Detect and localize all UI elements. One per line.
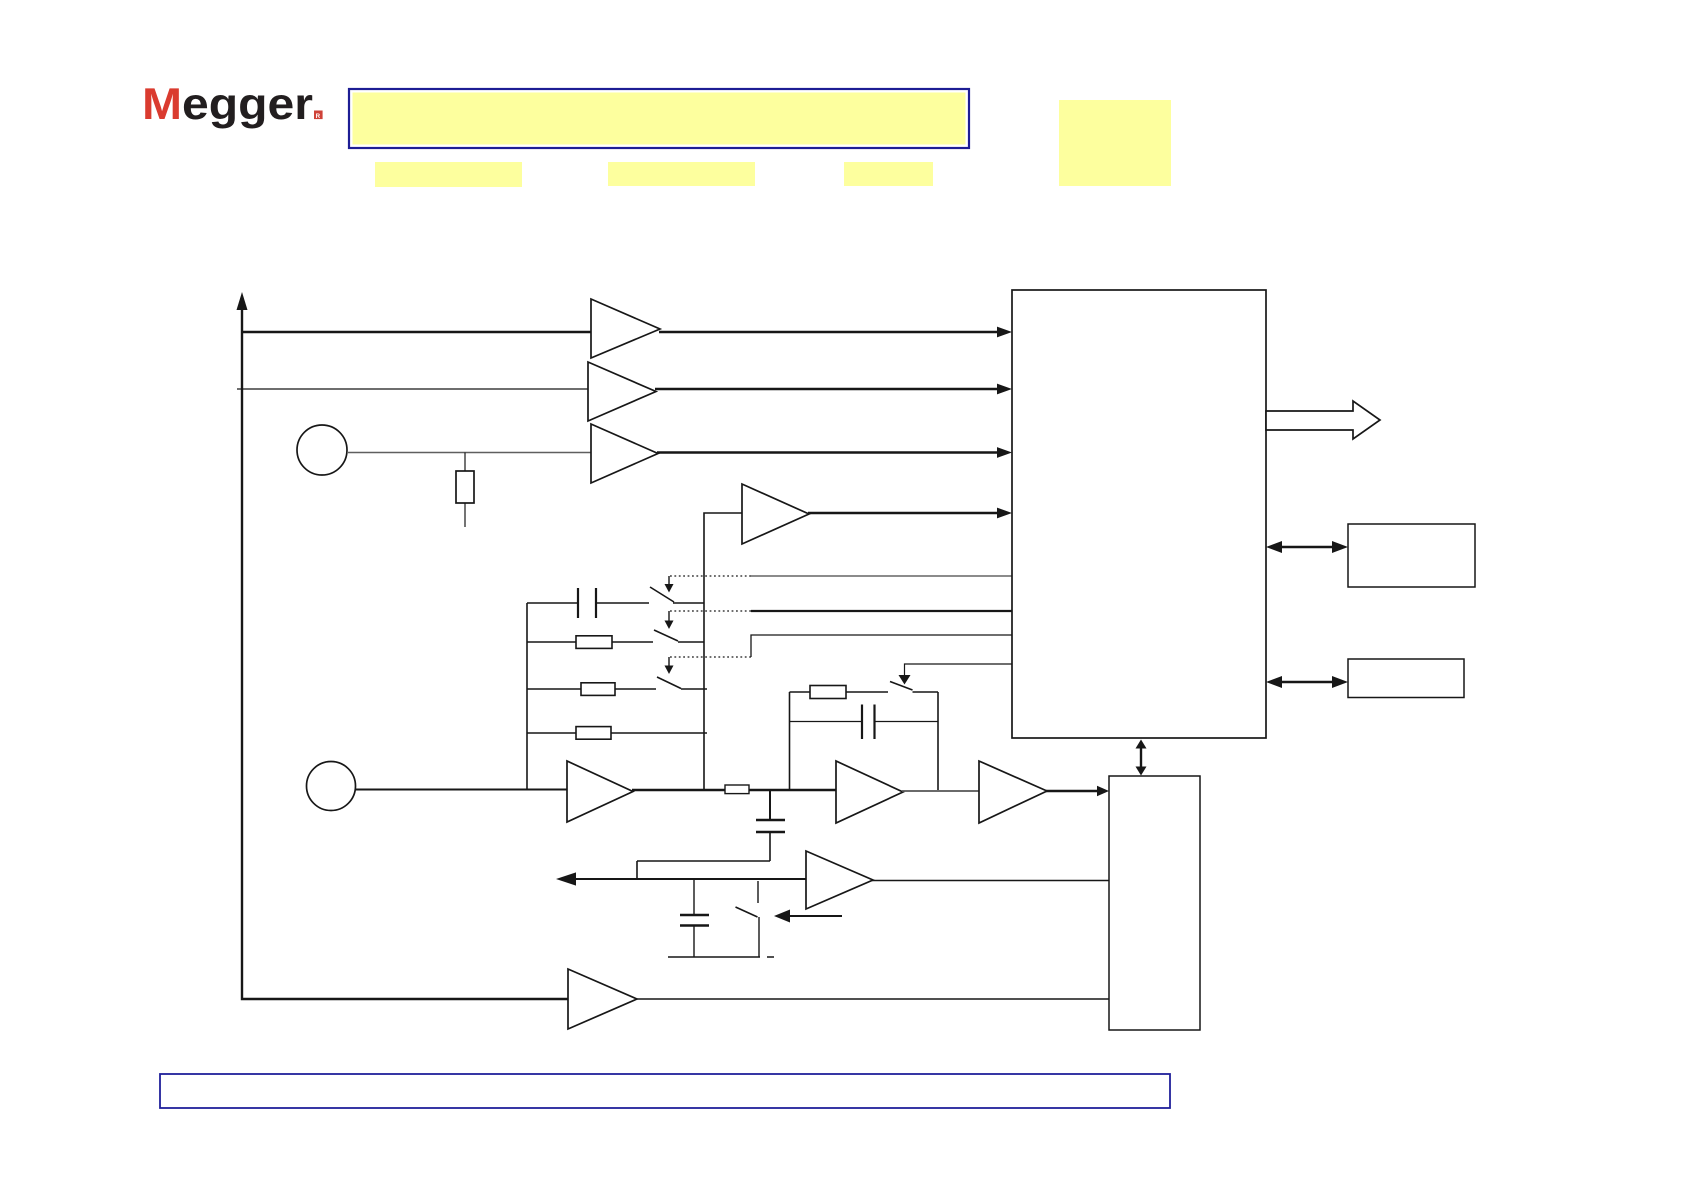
- stub wire above R1: [464, 453, 466, 472]
- svg-text:R: R: [316, 113, 321, 120]
- gain bus right: [704, 513, 742, 789]
- wire line 3: [347, 452, 591, 454]
- control wire S4: [905, 664, 1013, 676]
- op-amp U5: [567, 761, 633, 822]
- feedback top wire: [790, 691, 889, 693]
- svg-text:Megger: Megger: [142, 80, 313, 129]
- arrowhead into FPGA in2: [997, 384, 1012, 395]
- resistor R6: [810, 686, 846, 699]
- highlight chip 1: [375, 162, 522, 187]
- wire U9 to ADC: [636, 998, 1109, 1000]
- capacitor C1: [578, 588, 596, 618]
- C4 lower stem: [693, 926, 695, 958]
- gain bus left: [526, 603, 528, 790]
- switch S2 blade: [654, 630, 678, 641]
- op-amp U9: [568, 969, 637, 1029]
- wire U4 out: [808, 512, 998, 515]
- wire C2 to DAC node: [637, 832, 770, 879]
- row2 left wire: [527, 641, 576, 643]
- wire U3 out: [657, 451, 998, 454]
- yellow note box: [1059, 100, 1171, 186]
- dotted control S2: [669, 610, 751, 612]
- stub wire below R1: [464, 503, 466, 527]
- wire U6 to U7: [902, 790, 979, 792]
- switch S5 lower stem: [758, 917, 760, 957]
- row2 right wire: [612, 641, 704, 643]
- feedback top wire right: [913, 691, 939, 693]
- left bus wire: [242, 309, 568, 999]
- row1 left wire: [527, 602, 578, 604]
- row3 right wire: [615, 688, 707, 690]
- op-amp U8: [806, 851, 873, 909]
- capacitor C2 stem: [769, 790, 771, 820]
- row1 right wire: [596, 602, 704, 604]
- switch S5 blade: [736, 907, 758, 917]
- transducer CT1: [297, 425, 347, 475]
- resistor R3: [581, 683, 615, 696]
- left bus arrowhead: [237, 292, 248, 310]
- arrowhead into FPGA in4: [997, 508, 1012, 519]
- feedback left wire: [789, 692, 791, 790]
- wire line 1: [242, 331, 591, 334]
- feedback cap wire: [790, 721, 939, 723]
- buffer U3: [591, 424, 658, 483]
- wire U2 out: [655, 388, 998, 391]
- control arrow S3: [668, 657, 670, 666]
- wire CT2 to U5: [356, 788, 568, 790]
- FPGA-ADC bus arrows: [1140, 747, 1142, 768]
- capacitor C2: [756, 820, 785, 832]
- highlight chip 3: [844, 162, 933, 186]
- resistor R1: [456, 471, 474, 503]
- control arrow S2: [668, 611, 670, 621]
- mem bus arrow 1: [1281, 546, 1333, 548]
- control wire S2: [751, 610, 1012, 612]
- op-amp U7: [979, 761, 1047, 823]
- switch S5 stem: [757, 881, 759, 903]
- buffer U1: [591, 299, 660, 358]
- wire U8 to ADC: [872, 880, 1109, 882]
- wire U1 out: [659, 331, 998, 334]
- row4 left wire: [527, 732, 576, 734]
- footer bar: [160, 1074, 1170, 1108]
- wire U7 to ADC: [1046, 790, 1098, 792]
- DAC output arrowhead: [556, 872, 576, 885]
- buffer U2: [588, 362, 656, 421]
- Megger logo: [142, 80, 323, 129]
- DAC wire: [574, 878, 806, 880]
- row4 right wire: [611, 732, 707, 734]
- capacitor C4: [680, 915, 709, 926]
- resistor R4: [576, 727, 611, 740]
- title highlight box: [349, 89, 969, 148]
- arrowhead into FPGA in3: [997, 447, 1012, 458]
- arrowhead into ADC: [1097, 786, 1109, 796]
- control arrow S1: [668, 576, 670, 585]
- transducer CT2: [307, 762, 356, 811]
- data bus open arrow: [1266, 401, 1380, 439]
- wire U5 out: [632, 789, 836, 792]
- row3 left wire: [527, 688, 581, 690]
- resistor R5: [725, 785, 749, 794]
- highlight chip 2: [608, 162, 755, 186]
- wire line 2: [237, 388, 588, 390]
- switch S1 blade: [650, 587, 674, 602]
- resistor R2: [576, 636, 612, 649]
- arrowhead into FPGA in1: [997, 327, 1012, 338]
- control arrow S5 shaft: [789, 915, 842, 917]
- capacitor C4 stem: [693, 879, 695, 915]
- dotted control S3: [669, 656, 751, 658]
- memory box 1: [1348, 524, 1475, 587]
- switch S3 blade: [657, 677, 681, 689]
- op-amp U6: [836, 761, 903, 823]
- feedback right wire: [937, 692, 939, 790]
- ADC box: [1109, 776, 1200, 1030]
- switch S4 blade: [890, 682, 913, 691]
- control arrow S4: [899, 675, 911, 685]
- control wire S3: [751, 635, 1012, 657]
- FPGA box: [1012, 290, 1266, 738]
- buffer U4: [742, 484, 809, 544]
- mem bus arrow 2: [1281, 681, 1333, 683]
- memory box 2: [1348, 659, 1464, 698]
- control wire S1: [751, 575, 1012, 577]
- common wire: [668, 956, 774, 958]
- dotted control S1: [669, 575, 751, 577]
- control arrow S5 head: [774, 910, 790, 923]
- capacitor C3: [862, 705, 875, 740]
